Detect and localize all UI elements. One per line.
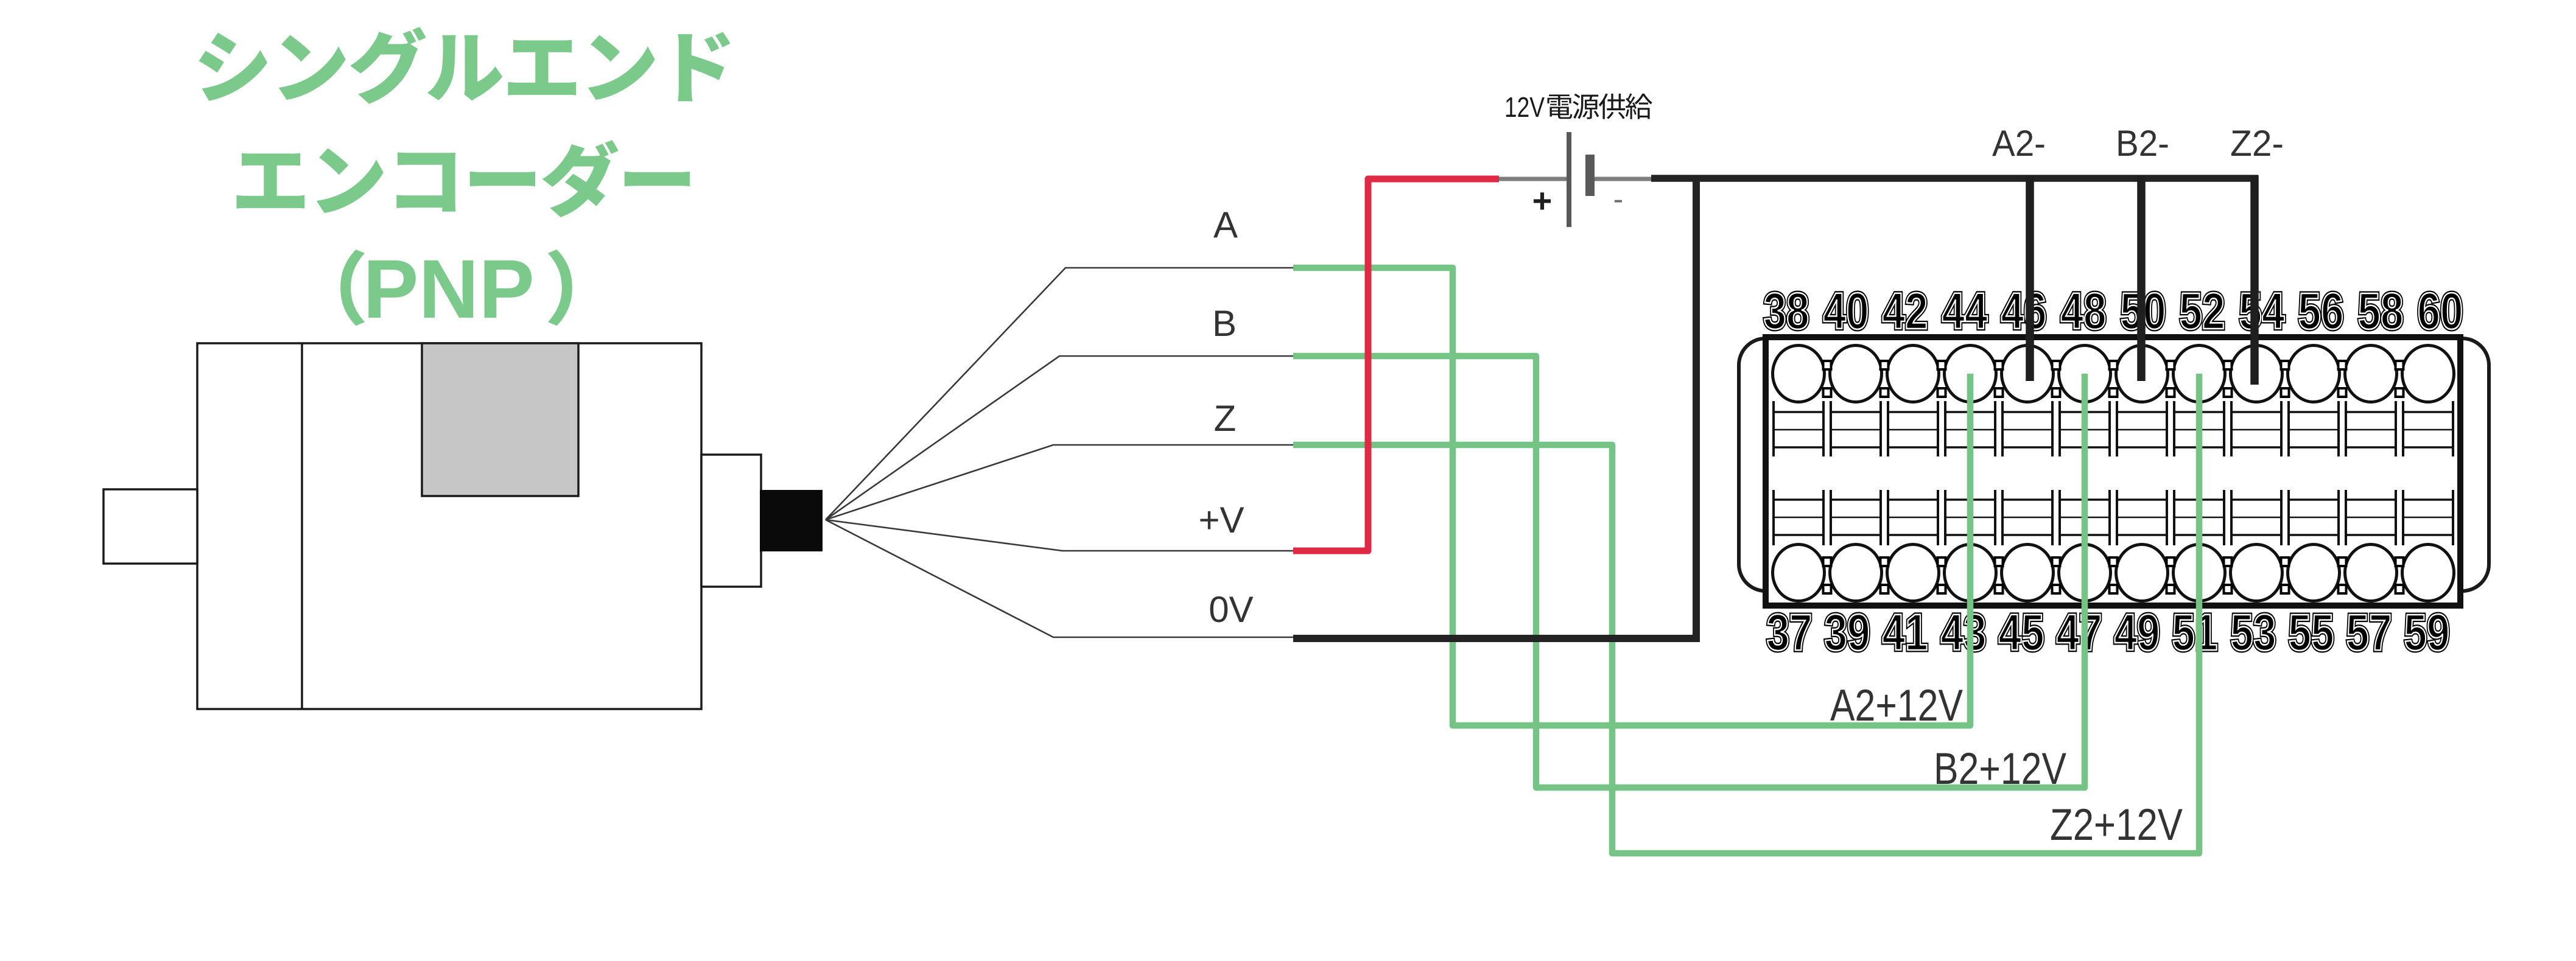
terminal separator notches gap 3 bbox=[1938, 361, 1946, 593]
terminal separator notches gap 2 bbox=[1881, 361, 1889, 593]
cable gland (black block) bbox=[760, 490, 823, 551]
clamp contact upper cell 54 bbox=[2231, 401, 2281, 456]
title line 1: シングルエンド bbox=[199, 27, 731, 103]
pin number 60 bbox=[2418, 282, 2463, 340]
clamp contact lower cell 59 bbox=[2403, 490, 2453, 545]
pin number 49 bbox=[2114, 604, 2160, 661]
svg-text:12V: 12V bbox=[1504, 91, 1545, 123]
wire +V red (to battery +) bbox=[1293, 179, 1499, 551]
wire B lead (thin) bbox=[826, 356, 1294, 520]
svg-text:44: 44 bbox=[1942, 282, 1988, 340]
clamp contact upper cell 60 bbox=[2403, 401, 2453, 456]
terminal separator notches gap 9 bbox=[2281, 361, 2289, 593]
clamp contact upper cell 42 bbox=[1888, 401, 1938, 456]
svg-text:48: 48 bbox=[2061, 282, 2107, 340]
svg-text:40: 40 bbox=[1823, 282, 1869, 340]
svg-text:-: - bbox=[1613, 182, 1624, 216]
pin number 50 bbox=[2121, 282, 2166, 340]
battery positive plate bbox=[1567, 132, 1571, 227]
encoder motor body bbox=[197, 343, 701, 709]
clamp contact lower cell 47 bbox=[2060, 490, 2110, 545]
clamp contact upper cell 40 bbox=[1831, 401, 1881, 456]
clamp contact upper cell 52 bbox=[2174, 401, 2224, 456]
svg-text:38: 38 bbox=[1764, 282, 1809, 340]
clamp contact upper cell 46 bbox=[2002, 401, 2052, 456]
clamp contact upper cell 38 bbox=[1774, 401, 1823, 456]
svg-text:60: 60 bbox=[2418, 282, 2463, 340]
pin 53 terminal circle bbox=[2231, 545, 2283, 601]
clamp contact upper cell 44 bbox=[1945, 401, 1995, 456]
terminal block main frame bbox=[1766, 337, 2460, 606]
svg-text:41: 41 bbox=[1883, 604, 1928, 661]
terminal separator notches gap 10 bbox=[2339, 361, 2346, 593]
svg-text:Z: Z bbox=[1214, 398, 1237, 439]
wire 0V lead (thin) bbox=[826, 520, 1294, 637]
pin 57 terminal circle bbox=[2345, 545, 2397, 601]
pin number 52 bbox=[2180, 282, 2225, 340]
pin 58 terminal circle bbox=[2345, 346, 2397, 402]
pin number 44 bbox=[1942, 282, 1988, 340]
wire A2- stub to pin 46 bbox=[2026, 175, 2034, 381]
wire Z lead (thin) bbox=[826, 445, 1294, 520]
svg-text:55: 55 bbox=[2289, 604, 2334, 661]
pin number 43 bbox=[1941, 604, 1987, 661]
pin 39 terminal circle bbox=[1830, 545, 1882, 601]
svg-text:47: 47 bbox=[2057, 604, 2102, 661]
pin 60 terminal circle bbox=[2402, 346, 2454, 402]
clamp contact lower cell 55 bbox=[2289, 490, 2339, 545]
svg-text:45: 45 bbox=[1999, 604, 2044, 661]
pin 52 terminal circle bbox=[2174, 346, 2225, 402]
pin number 57 bbox=[2346, 604, 2392, 661]
terminal separator notches gap 7 bbox=[2167, 361, 2175, 593]
svg-text:B2-: B2- bbox=[2116, 123, 2169, 164]
pin number 54 bbox=[2239, 282, 2285, 340]
pin number 51 bbox=[2172, 604, 2218, 661]
clamp contact upper cell 58 bbox=[2346, 401, 2396, 456]
battery BT1 label 12V電源供給 bbox=[1504, 91, 1652, 123]
svg-text:57: 57 bbox=[2346, 604, 2392, 661]
pin number 55 bbox=[2289, 604, 2334, 661]
battery lead right (gray) bbox=[1594, 177, 1651, 181]
pin 47 terminal circle bbox=[2059, 545, 2111, 601]
wire 0V black (to battery - junction) bbox=[1293, 635, 1700, 642]
svg-text:39: 39 bbox=[1825, 604, 1870, 661]
pin 44 terminal circle bbox=[1945, 346, 1996, 402]
wire black bus battery- to terminal block bbox=[1651, 175, 2258, 182]
svg-text:53: 53 bbox=[2231, 604, 2276, 661]
terminal separator notches gap 8 bbox=[2224, 361, 2232, 593]
battery negative plate bbox=[1585, 155, 1595, 196]
pin number 47 bbox=[2057, 604, 2102, 661]
pin number 39 bbox=[1825, 604, 1870, 661]
clamp contact lower cell 51 bbox=[2174, 490, 2224, 545]
terminal separator notches gap 6 bbox=[2110, 361, 2118, 593]
motor top gray block bbox=[422, 343, 578, 496]
pin 38 terminal circle bbox=[1773, 346, 1825, 402]
terminal separator notches gap 11 bbox=[2396, 361, 2404, 593]
svg-text:A2+12V: A2+12V bbox=[1830, 681, 1963, 730]
pin 45 terminal circle bbox=[2002, 545, 2054, 601]
pin 42 terminal circle bbox=[1887, 346, 1939, 402]
svg-text:A: A bbox=[1213, 204, 1238, 245]
pin number 58 bbox=[2358, 282, 2404, 340]
pin 55 terminal circle bbox=[2288, 545, 2340, 601]
pin number 37 bbox=[1767, 604, 1813, 661]
svg-text:A2-: A2- bbox=[1992, 123, 2046, 164]
wire A green (A to pin 44, A2+12V) bbox=[1293, 268, 1970, 725]
clamp contact lower cell 41 bbox=[1888, 490, 1938, 545]
pin number 41 bbox=[1883, 604, 1928, 661]
svg-text:+: + bbox=[1532, 181, 1553, 220]
svg-text:56: 56 bbox=[2298, 282, 2344, 340]
wire B2- stub to pin 50 bbox=[2137, 175, 2146, 381]
svg-text:37: 37 bbox=[1767, 604, 1813, 661]
pin number 53 bbox=[2231, 604, 2276, 661]
pin number 46 bbox=[2001, 282, 2047, 340]
svg-text:46: 46 bbox=[2001, 282, 2047, 340]
svg-text:49: 49 bbox=[2114, 604, 2160, 661]
pin 43 terminal circle bbox=[1945, 545, 1996, 601]
title line 2: エンコーダー bbox=[237, 140, 690, 217]
wire A lead (thin) bbox=[826, 268, 1294, 520]
pin number 40 bbox=[1823, 282, 1869, 340]
pin 49 terminal circle bbox=[2116, 545, 2168, 601]
wire Z green (Z to pin 52, Z2+12V) bbox=[1293, 374, 2199, 853]
pin 41 terminal circle bbox=[1887, 545, 1939, 601]
pin 54 terminal circle bbox=[2231, 346, 2283, 402]
pin number 56 bbox=[2298, 282, 2344, 340]
clamp contact lower cell 43 bbox=[1945, 490, 1995, 545]
svg-text:Z2+12V: Z2+12V bbox=[2050, 800, 2183, 850]
svg-text:PNP: PNP bbox=[363, 243, 535, 336]
wire Z2- stub to pin 54 bbox=[2250, 175, 2259, 385]
svg-text:42: 42 bbox=[1883, 282, 1928, 340]
svg-text:54: 54 bbox=[2239, 282, 2285, 340]
svg-text:43: 43 bbox=[1941, 604, 1987, 661]
pin 48 terminal circle bbox=[2059, 346, 2111, 402]
motor shaft bbox=[104, 489, 197, 564]
pin 59 terminal circle bbox=[2402, 545, 2454, 601]
wire B green (B to pin 48, B2+12V) bbox=[1293, 356, 2085, 788]
pin 46 terminal circle bbox=[2002, 346, 2054, 402]
svg-text:Z2-: Z2- bbox=[2230, 123, 2284, 164]
title line 3: （PNP） bbox=[340, 243, 572, 336]
clamp contact lower cell 37 bbox=[1774, 490, 1823, 545]
battery lead left (gray) bbox=[1499, 177, 1567, 181]
svg-text:52: 52 bbox=[2180, 282, 2225, 340]
svg-text:59: 59 bbox=[2404, 604, 2450, 661]
pin 51 terminal circle bbox=[2174, 545, 2225, 601]
svg-text:+V: +V bbox=[1198, 500, 1244, 540]
pin number 48 bbox=[2061, 282, 2107, 340]
clamp contact upper cell 50 bbox=[2117, 401, 2167, 456]
clamp contact upper cell 48 bbox=[2060, 401, 2110, 456]
svg-text:0V: 0V bbox=[1209, 589, 1253, 630]
terminal separator notches gap 5 bbox=[2052, 361, 2060, 593]
clamp contact lower cell 57 bbox=[2346, 490, 2396, 545]
wire +V lead (thin) bbox=[826, 520, 1294, 551]
pin 40 terminal circle bbox=[1830, 346, 1882, 402]
rear connector housing bbox=[701, 455, 761, 587]
svg-text:58: 58 bbox=[2358, 282, 2404, 340]
clamp contact lower cell 49 bbox=[2117, 490, 2167, 545]
terminal block outer rounded housing bbox=[1739, 338, 2489, 591]
svg-text:B2+12V: B2+12V bbox=[1934, 744, 2066, 794]
terminal separator notches gap 1 bbox=[1823, 361, 1831, 593]
svg-text:51: 51 bbox=[2172, 604, 2218, 661]
pin 50 terminal circle bbox=[2116, 346, 2168, 402]
pin 56 terminal circle bbox=[2288, 346, 2340, 402]
clamp contact upper cell 56 bbox=[2289, 401, 2339, 456]
clamp contact lower cell 45 bbox=[2002, 490, 2052, 545]
clamp contact lower cell 53 bbox=[2231, 490, 2281, 545]
svg-text:B: B bbox=[1212, 303, 1237, 344]
pin number 42 bbox=[1883, 282, 1928, 340]
motor front flange divider line bbox=[301, 343, 303, 709]
pin 37 terminal circle bbox=[1773, 545, 1825, 601]
pin number 59 bbox=[2404, 604, 2450, 661]
clamp contact lower cell 39 bbox=[1831, 490, 1881, 545]
wire black vertical battery- to 0V junction bbox=[1693, 178, 1700, 642]
terminal separator notches gap 4 bbox=[1995, 361, 2003, 593]
pin number 38 bbox=[1764, 282, 1809, 340]
pin number 45 bbox=[1999, 604, 2044, 661]
